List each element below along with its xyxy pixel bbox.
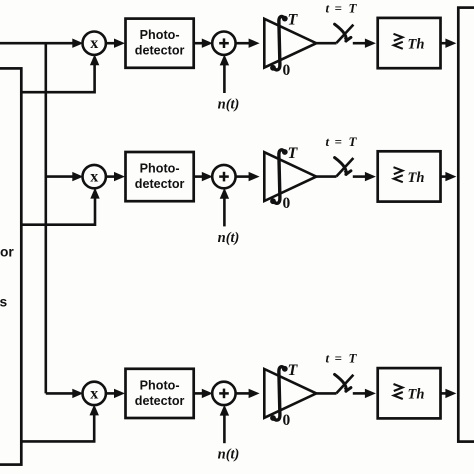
svg-text:detector: detector	[135, 394, 185, 408]
integral sign of INT3	[273, 367, 284, 420]
wire: S1 to integrator INT1	[235, 42, 250, 45]
wire: code sequence from left box to M3	[21, 415, 94, 442]
integrator INT3 (triangle)	[264, 369, 316, 418]
wire: INT3 to sampler SW3	[316, 392, 336, 395]
svg-text:Th: Th	[408, 170, 425, 186]
wire: PD3 to adder S3	[194, 392, 203, 395]
svg-text:s: s	[0, 295, 8, 310]
svg-text:n(t): n(t)	[218, 230, 240, 246]
wire: input to multiplier M3	[46, 392, 74, 395]
wire: TH1 to decision box	[441, 42, 447, 45]
threshold detector TH2	[378, 151, 441, 201]
photo-detector PD2	[126, 152, 194, 201]
wire: input to multiplier M1	[0, 42, 74, 45]
wire: M1 to photo-detector PD1	[105, 42, 116, 45]
svg-text:Photo-: Photo-	[140, 378, 180, 392]
svg-text:Photo-: Photo-	[140, 28, 180, 42]
svg-text:T: T	[288, 12, 299, 29]
wire: SW1 to threshold TH1	[353, 42, 366, 45]
wire: TH2 to decision box	[441, 175, 447, 178]
svg-text:T: T	[288, 145, 299, 162]
svg-text:0: 0	[283, 62, 291, 79]
wire: SW3 to threshold TH3	[353, 392, 366, 395]
sampler switch SW1 closing arrow	[335, 24, 351, 41]
wire: M3 to photo-detector PD3	[105, 392, 116, 395]
right box (decision logic, cut off)	[458, 8, 474, 442]
wire: code sequence from left box to M2	[21, 198, 95, 225]
multiplier M2	[83, 165, 106, 188]
sampler switch SW1 arm	[336, 25, 353, 43]
svg-text:Th: Th	[408, 36, 425, 52]
wire: INT2 to sampler SW2	[316, 175, 336, 178]
wire: PD1 to adder S1	[194, 42, 203, 45]
svg-text:x: x	[90, 169, 98, 186]
svg-text:t=T: t=T	[326, 0, 358, 15]
svg-text:T: T	[288, 362, 299, 379]
svg-text:t=T: t=T	[326, 134, 358, 149]
wire: TH3 to decision box	[441, 392, 447, 395]
left box (splitter/correlator, cut off)	[0, 68, 21, 464]
svg-text:detector: detector	[135, 44, 185, 58]
wire: noise input into S3	[223, 414, 226, 443]
svg-text:0: 0	[283, 195, 291, 212]
photo-detector PD3	[126, 369, 194, 418]
threshold detector TH3	[378, 368, 441, 418]
svg-text:n(t): n(t)	[218, 447, 240, 463]
svg-text:Photo-: Photo-	[140, 162, 180, 176]
svg-text:or: or	[0, 245, 14, 260]
wire: M2 to photo-detector PD2	[105, 175, 116, 178]
integral sign of INT1	[273, 17, 284, 70]
adder S2	[212, 165, 235, 188]
wire: PD2 to adder S2	[194, 175, 203, 178]
svg-text:Th: Th	[408, 387, 425, 403]
wire: input to multiplier M2	[46, 175, 74, 178]
label &#8823; Th in TH1	[394, 34, 403, 49]
wire: INT1 to sampler SW1	[316, 42, 336, 45]
label &#8823; Th in TH3	[394, 384, 403, 399]
integrator INT1 (triangle)	[264, 19, 316, 68]
wire: S3 to integrator INT3	[235, 392, 250, 395]
multiplier M1	[83, 32, 106, 55]
sampler switch SW2 closing arrow	[335, 158, 351, 175]
sampler switch SW3 arm	[336, 375, 353, 393]
integral sign of INT2	[273, 150, 284, 203]
adder S3	[212, 382, 235, 405]
svg-text:detector: detector	[135, 177, 185, 191]
wire: SW2 to threshold TH2	[353, 175, 366, 178]
integrator INT2 (triangle)	[264, 152, 316, 201]
wire: noise input into S2	[223, 198, 226, 227]
multiplier M3	[83, 382, 106, 405]
photo-detector PD1	[126, 19, 194, 68]
label &#8823; Th in TH2	[394, 167, 403, 182]
svg-text:x: x	[90, 35, 98, 52]
wire: input signal trunk (vertical)	[44, 43, 47, 393]
wire: code sequence from left box to M1	[21, 65, 95, 93]
sampler switch SW2 arm	[336, 158, 353, 176]
adder S1	[212, 32, 235, 55]
sampler switch SW3 closing arrow	[335, 374, 351, 391]
wire: S2 to integrator INT2	[235, 175, 250, 178]
svg-text:n(t): n(t)	[218, 96, 240, 112]
threshold detector TH1	[378, 18, 441, 68]
svg-text:t=T: t=T	[326, 351, 358, 366]
svg-text:0: 0	[283, 412, 291, 429]
wire: noise input into S1	[223, 64, 226, 93]
svg-text:x: x	[90, 385, 98, 402]
